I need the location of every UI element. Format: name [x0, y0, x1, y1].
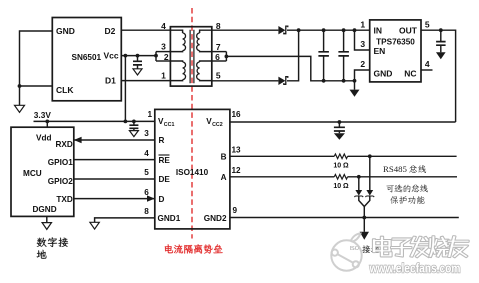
svg-text:9: 9	[233, 206, 238, 215]
svg-text:3: 3	[144, 129, 149, 138]
wire TVS common to iso ground arrow	[363, 207, 365, 232]
svg-text:2: 2	[360, 59, 365, 69]
svg-text:DGND: DGND	[33, 205, 57, 214]
junction GND2 TVS	[362, 216, 366, 220]
svg-text:OUT: OUT	[399, 25, 418, 35]
watermark logo circle	[331, 234, 361, 271]
svg-text:RS485: RS485	[383, 164, 408, 174]
U2 NC stub	[421, 69, 433, 71]
svg-text:3.3V: 3.3V	[34, 110, 52, 120]
svg-text:16: 16	[231, 110, 241, 119]
svg-text:4: 4	[161, 21, 166, 31]
wire U1 D1 to transformer pin 1	[121, 80, 170, 82]
svg-text:6: 6	[215, 52, 220, 62]
svg-text:10 Ω: 10 Ω	[333, 163, 349, 170]
svg-text:GPIO1: GPIO1	[48, 158, 73, 167]
T1 secondary winding top	[197, 33, 200, 51]
svg-text:10 Ω: 10 Ω	[333, 183, 349, 190]
svg-text:NC: NC	[404, 69, 416, 79]
wire center tap to secondary ground rail	[226, 56, 354, 80]
wire to ground	[19, 86, 21, 105]
svg-text:3: 3	[360, 39, 365, 49]
isolation barrier dashed line	[191, 8, 193, 239]
svg-text:Vdd: Vdd	[36, 134, 51, 143]
wire U1 CLK pin	[20, 85, 53, 87]
svg-text:Vcc: Vcc	[104, 51, 119, 61]
svg-text:ISO1410: ISO1410	[176, 168, 209, 177]
junction C3 top	[342, 28, 346, 32]
junction C2 top	[322, 28, 326, 32]
svg-text:TXD: TXD	[56, 195, 72, 204]
wire DGND stub	[46, 216, 48, 222]
svg-text:3: 3	[161, 41, 166, 51]
wire U2 OUT	[421, 30, 456, 122]
junction VCC2 cap	[338, 120, 342, 124]
capacitor C6 VCC2 bypass	[338, 122, 340, 127]
svg-text:GND2: GND2	[204, 214, 227, 223]
resistor R2 10 ohm	[334, 175, 347, 180]
svg-text:D: D	[159, 195, 165, 204]
wire T1 pin 8 to diode D1	[212, 29, 279, 31]
svg-text:5: 5	[216, 70, 221, 80]
svg-text:GND: GND	[374, 69, 393, 79]
ground symbol C5	[129, 131, 138, 137]
label digital ground (Chinese)	[37, 238, 47, 247]
TVS diode on B	[369, 156, 371, 190]
junction GND-CLK	[18, 84, 22, 88]
junction B TVS	[368, 154, 372, 158]
junction rectifier top	[297, 28, 301, 32]
capacitor C2 filter	[323, 30, 325, 52]
wire GPIO1 to RE	[74, 159, 155, 161]
junction EN-IN	[353, 28, 357, 32]
svg-text:2: 2	[164, 52, 169, 62]
wire A from pin 12	[230, 176, 334, 178]
wire B from pin 13	[230, 155, 334, 157]
microcontroller MCU body	[11, 127, 74, 216]
junction Vcc-vertical	[124, 54, 128, 58]
svg-text:12: 12	[231, 166, 241, 175]
capacitor C4 output	[440, 30, 442, 41]
ground symbol C1	[133, 69, 142, 75]
junction C3 bottom	[342, 79, 346, 83]
svg-text:CLK: CLK	[56, 85, 74, 95]
label optional bus	[386, 185, 393, 192]
3.3V rail	[34, 120, 155, 122]
capacitor C3 filter	[343, 30, 345, 52]
T1 pins 2-3 tie	[156, 51, 170, 53]
regulator U2 TPS76350 body	[370, 20, 421, 82]
svg-text:GND: GND	[56, 26, 75, 36]
ground symbol secondary (solid)	[350, 90, 360, 97]
svg-text:DE: DE	[159, 175, 171, 184]
transformer T1 body	[170, 27, 211, 86]
junction rail-C5	[132, 120, 136, 124]
watermark text elecfans Chinese	[373, 237, 392, 257]
wire D2 cathode up to top rail	[287, 30, 299, 81]
ground symbol C6 (solid)	[334, 133, 345, 140]
wire GND1	[95, 218, 155, 222]
wire Vcc down to 3.3V rail	[124, 56, 126, 122]
schottky diode D2	[278, 77, 285, 85]
svg-text:A: A	[221, 173, 227, 182]
svg-text:D1: D1	[105, 76, 116, 86]
svg-text:CC1: CC1	[164, 122, 175, 128]
wire U1 Vcc to transformer center tap	[121, 55, 156, 57]
svg-text:1: 1	[360, 19, 365, 29]
T1 secondary winding bottom	[197, 62, 200, 80]
junction center tap right	[225, 55, 229, 59]
ground symbol DGND	[42, 223, 51, 230]
svg-text:GND1: GND1	[158, 214, 181, 223]
svg-text:www.elecfans.com: www.elecfans.com	[369, 261, 461, 276]
svg-text:CC2: CC2	[212, 122, 223, 128]
svg-text:13: 13	[231, 146, 241, 155]
junction Vcc-cap	[136, 54, 140, 58]
label isolation barrier (red Chinese)	[165, 244, 173, 253]
label protection function	[390, 196, 398, 204]
wire GPIO2 to DE	[74, 178, 155, 180]
svg-text:1: 1	[148, 110, 153, 119]
junction OUT cap	[439, 28, 443, 32]
T1 primary winding bottom	[183, 62, 186, 80]
svg-text:8: 8	[144, 207, 149, 216]
schottky diode D1	[278, 26, 285, 34]
capacitor C5 VCC1 bypass	[133, 121, 135, 125]
resistor R1 10 ohm	[334, 154, 347, 159]
junction C2 bottom	[322, 79, 326, 83]
svg-text:6: 6	[144, 188, 149, 197]
junction Vdd tick	[45, 120, 49, 124]
svg-text:4: 4	[144, 149, 149, 158]
wire Vdd tick	[46, 121, 48, 127]
wire D1 cathode to TPS IN rail	[287, 29, 370, 31]
junction secondary ground	[353, 79, 357, 83]
wire GND2 bus	[230, 217, 459, 219]
svg-text:EN: EN	[374, 46, 386, 56]
svg-text:4: 4	[425, 59, 430, 69]
svg-text:5: 5	[425, 19, 430, 29]
isolator U3 ISO1410 body	[155, 109, 230, 228]
wire VCC2 rail	[230, 121, 456, 123]
svg-text:SN6501: SN6501	[72, 53, 102, 62]
wire T1 pin 5 to diode D2	[212, 80, 279, 82]
wire RXD with arrow	[75, 139, 155, 141]
junction center tap left	[154, 54, 158, 58]
wire TXD with arrow to D	[74, 198, 154, 200]
T1 core lines	[190, 30, 194, 83]
wire A to bus	[348, 176, 457, 178]
wire U1 D2 to transformer pin 4	[121, 29, 170, 31]
junction A TVS	[357, 175, 361, 179]
T1 primary winding top	[183, 33, 186, 51]
ground symbol digital (U1)	[15, 105, 25, 112]
svg-text:MCU: MCU	[23, 169, 42, 178]
ground symbol C4 (solid)	[436, 52, 446, 59]
T1 pins 6-7 tie	[212, 51, 227, 53]
TVS diode on A	[358, 177, 360, 190]
svg-text:R: R	[159, 136, 165, 145]
wire to secondary ground symbol	[354, 81, 356, 90]
svg-text:RE: RE	[159, 156, 171, 165]
iso ground arrow	[360, 232, 369, 240]
junction rail-Vcc vertical	[124, 120, 128, 124]
svg-text:D2: D2	[105, 26, 116, 36]
svg-text:1: 1	[161, 70, 166, 80]
transformer driver U1 SN6501 body	[52, 18, 121, 101]
wire U1 GND pin to left rail	[20, 31, 53, 86]
ground symbol GND1	[90, 222, 99, 229]
capacitor C1 Vcc bypass	[137, 56, 139, 62]
svg-text:IN: IN	[374, 25, 383, 35]
svg-text:RXD: RXD	[56, 140, 73, 149]
svg-text:7: 7	[216, 42, 221, 52]
wire EN tie to IN	[355, 30, 370, 50]
svg-text:5: 5	[144, 168, 149, 177]
wire B to bus	[348, 155, 457, 157]
svg-text:GPIO2: GPIO2	[48, 177, 73, 186]
wire U2 GND jog	[355, 70, 370, 81]
svg-text:B: B	[221, 153, 227, 162]
